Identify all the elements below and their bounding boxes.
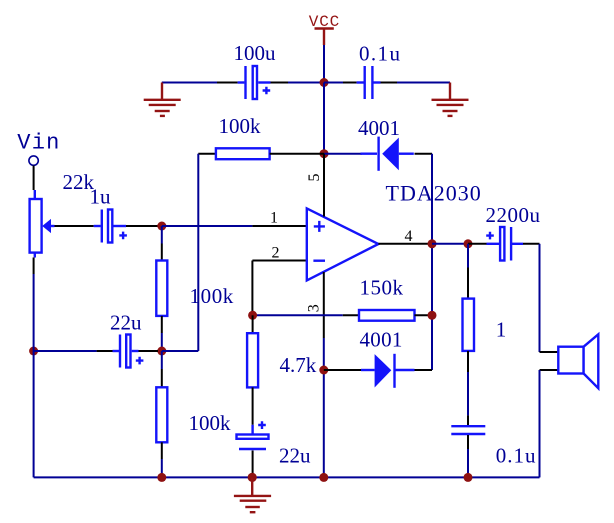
wire R3 to bottom rail — [161, 442, 163, 477]
wire pin3 stub — [323, 272, 325, 338]
wire speaker bottom stub — [540, 369, 559, 371]
resistor R3 100k — [156, 387, 167, 442]
svg-text:22u: 22u — [279, 444, 311, 468]
svg-text:5: 5 — [306, 174, 323, 182]
junction bottom rail pin3 — [319, 473, 328, 482]
junction bottom rail C7 — [464, 473, 473, 482]
wire pot wiper to C3 — [55, 225, 94, 227]
wire 22u node down to R3 — [161, 351, 163, 387]
capacitor C5 22u vertical — [237, 421, 269, 449]
svg-text:100u: 100u — [234, 41, 277, 65]
wire pin stub left of C4 — [97, 350, 113, 352]
wire feedback corner to R1 — [198, 153, 216, 155]
resistor R4 150k — [359, 310, 415, 321]
wire top rail left of C1 — [162, 82, 217, 84]
svg-text:4: 4 — [405, 228, 413, 245]
wire output node to C6 node — [432, 243, 468, 245]
wire speaker column top — [539, 244, 541, 352]
wire pin3 column lower — [323, 338, 325, 477]
wire feedback column — [197, 154, 199, 351]
svg-text:150k: 150k — [360, 276, 404, 300]
wire pin1 node down to R2 — [161, 226, 163, 261]
svg-text:2200u: 2200u — [486, 203, 541, 227]
capacitor C2 0.1u — [357, 66, 381, 99]
wire pin2 stub — [252, 260, 306, 262]
ground top-left — [144, 83, 181, 116]
speaker LS1 — [558, 334, 598, 388]
svg-text:100k: 100k — [219, 114, 262, 138]
wire pin stub left of C6 — [468, 243, 487, 245]
svg-text:4001: 4001 — [360, 328, 403, 352]
wire C6 node down to R6 — [467, 244, 469, 299]
wire top rail C2 to right ground — [397, 82, 450, 84]
wire C3 to pin1 node — [126, 225, 158, 227]
wire R1 to pin5 node — [270, 153, 324, 155]
op-amp U1 TDA2030 — [307, 208, 379, 280]
junction pin5 node — [320, 149, 329, 158]
svg-text:1u: 1u — [90, 184, 112, 208]
wire VCC stem — [323, 45, 325, 83]
wire pin5 node to D1 — [324, 153, 362, 155]
wire pin stub right of C1 — [271, 82, 289, 84]
junction pin1 node — [157, 222, 166, 231]
junction VCC rail — [320, 78, 329, 87]
wire pin1 node to op-amp — [162, 225, 253, 227]
wire left column pot to 22u node — [33, 258, 35, 352]
resistor R5 4.7k — [247, 333, 258, 387]
ground bottom — [234, 477, 271, 512]
resistor R1 100k — [216, 148, 270, 159]
resistor R2 100k — [156, 261, 167, 316]
wire pin5 stub — [323, 154, 325, 217]
port Vin — [17, 131, 60, 166]
junction pin2 node — [248, 311, 257, 320]
ground top-right — [432, 83, 469, 116]
wire speaker column bottom — [539, 370, 541, 477]
capacitor C4 22u — [113, 335, 144, 368]
wire pin stub left of C1 — [217, 82, 238, 84]
svg-text:0.1u: 0.1u — [496, 443, 537, 467]
wire top rail VCC node to C2 — [324, 82, 343, 84]
wire Vin to pot — [33, 166, 35, 191]
wire D2 to output column — [415, 369, 433, 371]
wire pin stub right of C6 — [523, 243, 540, 245]
junction C6 node — [464, 239, 473, 248]
diode D1 4001 — [361, 137, 414, 171]
wire pin stub right of C2 — [381, 82, 398, 84]
svg-text:4.7k: 4.7k — [280, 353, 317, 377]
wire bottom rail — [34, 476, 540, 478]
wire stub pin2 node to R5 — [252, 315, 254, 333]
junction 4.7k node — [319, 366, 328, 375]
capacitor C1 100u — [238, 66, 271, 99]
svg-text:TDA2030: TDA2030 — [386, 181, 482, 206]
power VCC symbol — [309, 13, 340, 45]
wire 22u node to C4 — [34, 350, 97, 352]
wire pin2 node row — [253, 314, 343, 316]
wire C7 to bottom rail — [467, 435, 469, 477]
svg-text:22u: 22u — [110, 310, 142, 334]
wire 22u node to feedback column — [162, 350, 199, 352]
svg-text:1: 1 — [270, 209, 278, 226]
capacitor C6 2200u — [486, 227, 523, 261]
wire 4.7k node to D2 — [324, 369, 361, 371]
svg-text:Vin: Vin — [17, 131, 60, 156]
diode D2 4001 — [361, 354, 415, 388]
wire VCC node down to pin5 node — [323, 83, 325, 154]
capacitor C3 1u — [94, 210, 127, 243]
junction 22u node left — [29, 347, 38, 356]
wire R2 to 22u node — [161, 316, 163, 351]
capacitor C7 0.1u vertical — [451, 426, 485, 434]
wire D1 to output column — [415, 153, 433, 155]
wire left column to bottom rail — [33, 351, 35, 477]
wire C5 to bottom rail — [252, 451, 254, 478]
svg-text:0.1u: 0.1u — [359, 42, 401, 66]
wire pin4 output stub — [378, 243, 432, 245]
junction feedback node — [428, 311, 437, 320]
wire pin stub left of C2 — [343, 82, 357, 84]
svg-text:4001: 4001 — [358, 116, 400, 140]
svg-text:2: 2 — [272, 245, 280, 262]
svg-text:100k: 100k — [190, 284, 234, 308]
svg-text:100k: 100k — [189, 411, 232, 435]
svg-text:1: 1 — [496, 317, 507, 341]
wire pin2 drop — [251, 261, 253, 316]
junction bottom rail C5 — [248, 473, 257, 482]
wire pin1 stub — [252, 225, 306, 227]
junction output node — [428, 239, 437, 248]
wire speaker top stub — [540, 351, 559, 353]
resistor R6 1 — [463, 299, 475, 351]
junction bottom rail R3 — [157, 473, 166, 482]
wire top rail C1 to VCC node — [288, 82, 324, 84]
potentiometer RP 22k — [30, 190, 55, 258]
wire R5 to C5 — [252, 387, 254, 434]
wire stub to R4 — [343, 314, 359, 316]
wire pin stub right of C4 — [139, 350, 159, 352]
wire R6 to C7 — [467, 351, 469, 425]
junction 22u node right — [157, 347, 166, 356]
wire R4 to output column — [415, 314, 433, 316]
wire output column top — [431, 154, 433, 370]
svg-text:3: 3 — [305, 304, 322, 312]
